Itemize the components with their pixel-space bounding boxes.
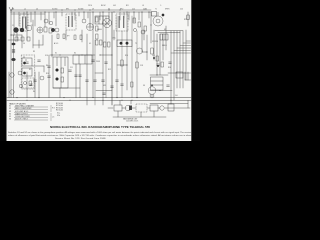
svg-text:C2: C2 <box>31 25 33 27</box>
svg-text:T1: T1 <box>155 8 157 10</box>
svg-text:C9: C9 <box>92 8 94 10</box>
svg-text:.01: .01 <box>142 5 144 7</box>
svg-text:values of allowance of paid fl: values of allowance of paid fluctuated r… <box>8 134 192 137</box>
svg-text:V1 6K8: V1 6K8 <box>52 8 57 10</box>
svg-text:Switches S1 and S2 are shown i: Switches S1 and S2 are shown in the gram… <box>8 131 192 134</box>
svg-text:C3: C3 <box>36 8 38 10</box>
svg-text:R10: R10 <box>46 73 49 75</box>
svg-text:0.05: 0.05 <box>113 5 116 7</box>
svg-text:VOL: VOL <box>45 55 48 57</box>
svg-text:C18: C18 <box>140 65 143 67</box>
svg-text:6Q7G DET. A.V.C.: 6Q7G DET. A.V.C. <box>15 110 29 113</box>
svg-text:FIELD: FIELD <box>162 45 168 47</box>
svg-text:R1 50,000: R1 50,000 <box>56 103 63 105</box>
svg-text:V5 25Z6: V5 25Z6 <box>152 41 158 43</box>
svg-text:IFT: IFT <box>67 36 70 38</box>
svg-text:.5: .5 <box>160 5 161 7</box>
svg-text:V6: V6 <box>9 119 11 121</box>
svg-text:6K8G FREQ. CHANGER: 6K8G FREQ. CHANGER <box>15 105 35 108</box>
svg-text:C8 50: C8 50 <box>88 5 92 7</box>
svg-text:25A6G OUTPUT: 25A6G OUTPUT <box>15 112 28 115</box>
svg-text:R12: R12 <box>108 69 111 71</box>
svg-text:S2: S2 <box>74 53 76 55</box>
svg-text:R3: R3 <box>33 51 35 53</box>
svg-text:R14: R14 <box>125 55 128 57</box>
svg-text:R16: R16 <box>168 67 171 69</box>
svg-text:0.1: 0.1 <box>89 43 91 45</box>
svg-text:6X5G H.T. RECT.: 6X5G H.T. RECT. <box>15 119 29 121</box>
svg-text:SP: SP <box>164 29 166 31</box>
svg-text:R3 50,000: R3 50,000 <box>56 107 63 109</box>
svg-text:A.V.C.: A.V.C. <box>54 42 59 45</box>
svg-text:R11: R11 <box>126 5 129 7</box>
svg-text:R4 1M: R4 1M <box>101 5 106 7</box>
svg-text:IFT1: IFT1 <box>66 8 69 10</box>
svg-text:6B8G I.F. AMPLIFIER: 6B8G I.F. AMPLIFIER <box>15 107 32 110</box>
svg-text:Service Sheet No. 123. First I: Service Sheet No. 123. First Issued June… <box>55 137 106 140</box>
svg-text:T2: T2 <box>135 43 137 45</box>
svg-text:NORDA ELECTRICAL IND. RADIOGRA: NORDA ELECTRICAL IND. RADIOGRAMOPHONE TY… <box>50 125 150 129</box>
svg-text:R21: R21 <box>184 19 187 21</box>
svg-text:6X5: 6X5 <box>103 85 106 87</box>
svg-text:V4: V4 <box>143 85 145 87</box>
svg-text:0.005 MFD. 350 V.: 0.005 MFD. 350 V. <box>126 121 139 123</box>
svg-text:R6: R6 <box>33 91 35 93</box>
svg-text:S1 a: S1 a <box>57 113 60 115</box>
svg-text:C15: C15 <box>132 8 135 10</box>
svg-text:V2 6B8: V2 6B8 <box>78 8 83 10</box>
svg-text:C20: C20 <box>180 8 183 10</box>
svg-text:C21: C21 <box>152 55 155 57</box>
svg-text:V3: V3 <box>108 8 110 10</box>
svg-text:C11: C11 <box>70 67 73 69</box>
svg-text:S1: S1 <box>55 53 57 55</box>
svg-text:S2 b: S2 b <box>57 115 60 117</box>
svg-text:C5: C5 <box>30 85 32 87</box>
svg-text:R5: R5 <box>29 69 31 71</box>
svg-text:L2: L2 <box>24 8 26 10</box>
svg-text:C1: C1 <box>12 25 14 27</box>
svg-text:C4: C4 <box>23 43 25 45</box>
svg-text:R9: R9 <box>46 65 48 67</box>
svg-text:R4 50,000: R4 50,000 <box>56 110 63 112</box>
svg-text:R2 50,000: R2 50,000 <box>56 105 63 107</box>
svg-text:IFT2: IFT2 <box>120 8 123 10</box>
